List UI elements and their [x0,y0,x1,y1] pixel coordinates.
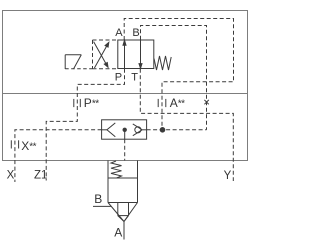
junction node A** line [160,127,166,133]
svg-text:P**: P** [84,96,99,110]
cartridge divider [108,177,138,179]
svg-text:P: P [115,72,122,84]
svg-text:X: X [7,170,15,182]
wire shuttle output down to cartridge spring chamber [124,130,126,161]
wire port A of cartridge [123,222,125,240]
solenoid a [65,55,81,69]
wire solenoid to valve [65,68,92,70]
svg-text:Z1: Z1 [34,170,47,182]
svg-text:A**: A** [170,96,185,110]
wire T to Y (dashed) [140,69,233,181]
port P** ticks [74,99,81,107]
valve return spring [154,56,171,70]
svg-text:T: T [131,72,138,84]
plug X on B branch [204,100,208,104]
wire shuttle right port to A** junction and plug branch (dashed) [147,129,207,131]
wire B over to plugged branch (dashed) [141,26,207,130]
wire A up and over to A** (dashed) [124,19,233,130]
shuttle ball [123,128,127,132]
port X** ticks [11,140,18,148]
wire P down-left to Z1 (dashed) [46,69,124,181]
svg-text:A: A [114,226,122,240]
check valve ball and seat [133,124,147,136]
cartridge spring [111,161,122,178]
valve arrow P to A [123,40,126,68]
cartridge valve body [108,161,138,203]
valve arrow B to T [139,40,142,69]
svg-text:Y: Y [224,170,232,182]
shuttle valve body [102,120,147,139]
svg-text:B: B [132,27,139,39]
manifold block outline [3,11,248,161]
valve crossed arrow A-T [94,42,108,68]
block interface line [3,93,248,95]
svg-text:A: A [115,27,123,39]
valve U1 right position (solid box) [118,40,154,69]
svg-text:X**: X** [21,139,36,153]
cartridge poppet seat [108,203,138,222]
svg-text:B: B [94,192,102,206]
shuttle left seat [102,123,116,137]
valve U1 left position (crossed arrows, dashed box) [93,40,119,69]
wire port B of cartridge [93,205,111,207]
port A** ticks [158,99,166,107]
wire shuttle left port to X (dashed) [15,130,102,182]
valve crossed arrow P-B [94,42,108,68]
